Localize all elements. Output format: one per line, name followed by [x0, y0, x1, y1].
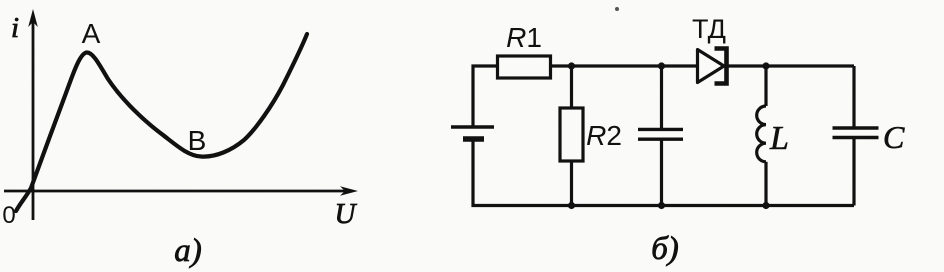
- svg-text:а): а): [174, 233, 202, 269]
- wire C1 top lead: [660, 66, 663, 129]
- wire C1 bottom lead: [660, 139, 663, 205]
- battery GB: [451, 127, 494, 139]
- node bottom C1: [658, 202, 665, 209]
- svg-text:0: 0: [2, 202, 15, 229]
- curve i(U) tunnel-diode characteristic: [16, 34, 307, 211]
- wire top (R1 to diode): [551, 64, 698, 67]
- tunnel diode VD (ТД) anode triangle: [698, 50, 725, 83]
- svg-text:R1: R1: [506, 22, 542, 53]
- wire L bottom lead: [764, 162, 767, 206]
- tunnel diode VD cathode bracket: [715, 49, 727, 84]
- node top L: [762, 62, 769, 69]
- node bottom R2: [568, 202, 575, 209]
- axis U (horizontal): [4, 186, 358, 196]
- svg-text:i: i: [11, 12, 19, 44]
- capacitor C1 (middle): [638, 129, 683, 139]
- wire top-left (battery to R1): [473, 66, 498, 127]
- wire right vertical top (to capacitor C): [852, 66, 855, 128]
- svg-text:C: C: [883, 119, 905, 155]
- speck: [615, 7, 619, 11]
- wire top (diode to right corner): [727, 64, 855, 67]
- wire bottom rail: [572, 204, 855, 207]
- resistor R2: [560, 108, 583, 161]
- wire bottom-left (battery to bottom rail): [473, 139, 572, 206]
- axis i (vertical): [28, 9, 38, 220]
- svg-text:A: A: [82, 18, 101, 49]
- node bottom L: [762, 202, 769, 209]
- capacitor C (right): [833, 128, 879, 138]
- resistor R1: [498, 56, 551, 78]
- svg-text:R2: R2: [586, 120, 622, 151]
- svg-text:L: L: [769, 120, 789, 157]
- svg-text:б): б): [651, 231, 679, 267]
- svg-text:U: U: [335, 198, 358, 230]
- wire R2 bottom lead: [570, 161, 573, 206]
- svg-text:ТД: ТД: [692, 14, 726, 44]
- wire R2 top lead: [570, 66, 573, 108]
- wire right vertical bottom: [852, 138, 855, 206]
- wire L top lead: [764, 66, 767, 106]
- node top R2: [568, 62, 575, 69]
- node top C1: [658, 62, 665, 69]
- inductor L: [757, 106, 766, 162]
- svg-text:B: B: [188, 125, 207, 156]
